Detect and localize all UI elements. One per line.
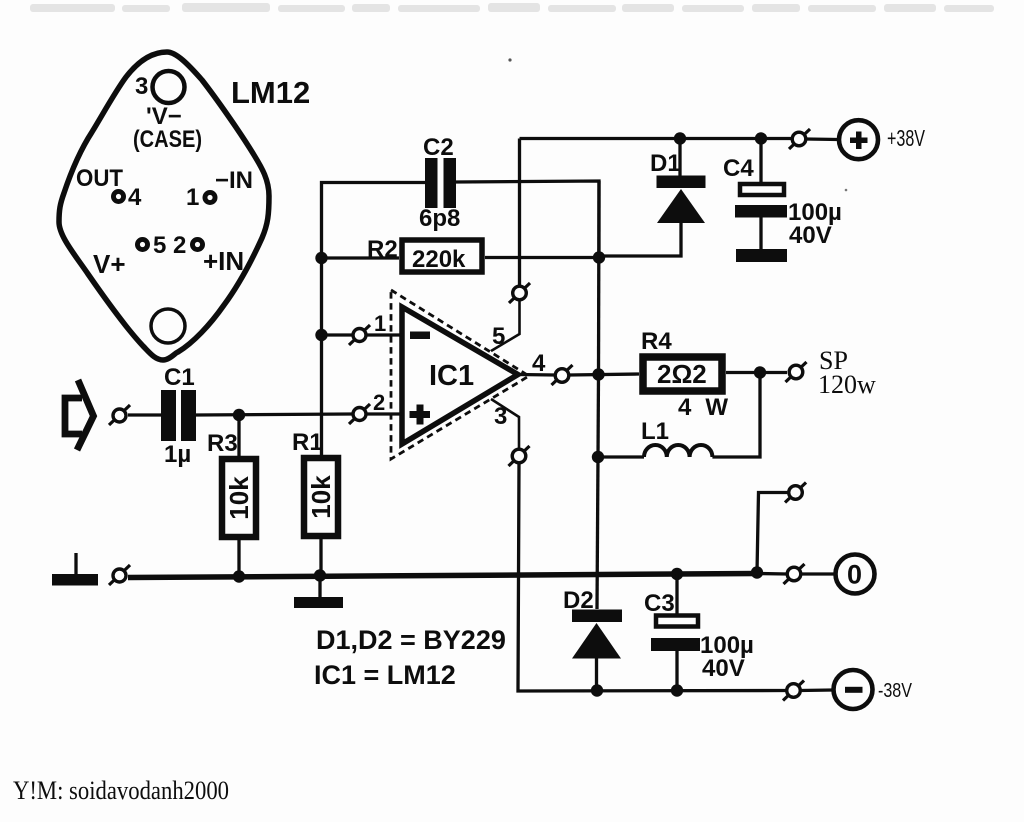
terminal +38V: [839, 120, 878, 159]
svg-text:IC1 = LM12: IC1 = LM12: [314, 660, 456, 690]
node R3 ground junction: [233, 570, 245, 582]
input arrow symbol: [65, 380, 94, 450]
svg-text:R1: R1: [292, 429, 323, 456]
node C4 top junction: [755, 132, 767, 144]
wire R2 left: [321, 256, 399, 259]
node D1 top junction: [674, 132, 686, 144]
svg-text:3: 3: [494, 403, 507, 430]
svg-text:4: 4: [532, 350, 546, 377]
node C1/R3 junction: [233, 409, 245, 421]
svg-text:3: 3: [135, 73, 148, 100]
wire C2 right to output line: [456, 181, 599, 258]
svg-text:D1: D1: [650, 150, 681, 177]
svg-text:LM12: LM12: [231, 75, 310, 110]
wire pin2: [366, 412, 402, 415]
ground terminal connector: [109, 565, 130, 585]
capacitor C2: [425, 158, 438, 208]
svg-text:C1: C1: [164, 364, 195, 391]
node D2 bottom junction: [591, 684, 603, 696]
connector pin4: [552, 365, 573, 385]
minus sign inside IC1: [410, 332, 430, 340]
node output junction: [592, 368, 604, 380]
node C3 top junction: [671, 568, 683, 580]
svg-text:R4: R4: [641, 328, 672, 355]
connector +38V: [789, 129, 810, 149]
svg-text:+IN: +IN: [203, 246, 244, 276]
node feedback/R2 junction: [315, 252, 327, 264]
resistor R1: [304, 458, 338, 536]
input terminal connector: [109, 405, 130, 425]
svg-text:5: 5: [492, 323, 505, 350]
svg-text:1µ: 1µ: [164, 441, 191, 468]
connector pin2: [349, 404, 370, 424]
svg-text:4 W: 4 W: [678, 394, 728, 421]
svg-text:2: 2: [373, 390, 385, 415]
svg-text:L1: L1: [641, 418, 669, 445]
svg-text:V+: V+: [93, 249, 126, 279]
connector pin1: [349, 325, 370, 345]
connector SP: [786, 362, 807, 382]
TO-3 package outline LM12: [59, 52, 269, 360]
svg-text:(CASE): (CASE): [133, 126, 202, 153]
svg-text:10k: 10k: [224, 476, 254, 520]
node C3 bottom junction: [671, 684, 683, 696]
svg-text:220k: 220k: [412, 246, 466, 273]
connector pin3: [509, 446, 530, 466]
svg-text:C3: C3: [644, 590, 675, 617]
connector pin5: [509, 283, 530, 303]
wire to 0 terminal: [801, 572, 835, 575]
svg-text:IC1: IC1: [429, 360, 474, 392]
svg-text:5: 5: [153, 232, 166, 259]
svg-text:+38V: +38V: [887, 125, 925, 151]
svg-text:2Ω2: 2Ω2: [657, 359, 707, 389]
wire R3 to ground line: [237, 537, 240, 576]
wire input to C1: [128, 413, 161, 416]
wire pin1: [321, 333, 352, 336]
wire 0 line (thick ground rail): [128, 574, 757, 578]
TO-3 bottom mounting hole: [151, 309, 185, 343]
wire to -38V terminal: [800, 688, 833, 692]
wire R1 to ground line: [319, 536, 322, 576]
svg-text:C4: C4: [723, 155, 754, 182]
terminal -38V: [834, 670, 873, 709]
node feedback/pin1 junction: [315, 329, 327, 341]
op-amp IC1 dashed outline: [391, 290, 529, 459]
pin dot 5: [135, 237, 150, 252]
wire pin5 to +rail: [491, 287, 520, 352]
ground bar under R1: [318, 575, 321, 597]
wire pin3 to -rail: [491, 399, 519, 449]
svg-text:OUT: OUT: [76, 165, 123, 192]
svg-text:C2: C2: [423, 134, 454, 161]
wire C1 to pin2 connector: [196, 414, 352, 415]
node SP junction: [754, 366, 766, 378]
resistor R2: [402, 240, 482, 272]
wire R4 right to SP junction: [726, 371, 754, 374]
wire feedback vertical line: [322, 183, 426, 459]
node L1 junction: [592, 451, 604, 463]
svg-text:1: 1: [374, 311, 386, 336]
wire +38V top rail: [520, 137, 793, 140]
svg-text:−IN: −IN: [215, 167, 253, 194]
wire 0 line to connector: [757, 572, 787, 576]
capacitor C1: [161, 390, 176, 441]
wire to +38V terminal: [806, 137, 838, 141]
wire output vertical line: [597, 181, 601, 375]
svg-text:6p8: 6p8: [419, 205, 460, 232]
ground symbol left: [74, 553, 77, 575]
svg-text:10k: 10k: [306, 475, 336, 519]
resistor R3: [222, 459, 256, 537]
wire pin4 output: [518, 373, 555, 377]
op-amp IC1 solid triangle: [402, 307, 518, 444]
svg-text:0: 0: [847, 560, 862, 590]
node stub/0 junction: [751, 566, 763, 578]
svg-text:120w: 120w: [818, 370, 876, 399]
svg-text:R3: R3: [207, 430, 238, 457]
connector 0: [784, 564, 805, 584]
wire junction to SP connector: [766, 371, 787, 374]
plus sign inside IC1: [410, 411, 431, 418]
connector -38V: [783, 681, 804, 701]
svg-text:D1,D2 = BY229: D1,D2 = BY229: [316, 625, 506, 655]
terminal 0: [836, 555, 875, 594]
svg-text:1: 1: [186, 184, 199, 211]
pin dot 4: [111, 189, 126, 204]
node R1 ground junction: [314, 569, 326, 581]
wire junction to R3: [237, 415, 240, 456]
connector stub upper right: [785, 483, 806, 503]
svg-text:2: 2: [173, 232, 186, 259]
svg-text:4: 4: [128, 184, 142, 211]
wire R2 right: [485, 256, 599, 259]
TO-3 top mounting hole: [153, 71, 185, 103]
svg-text:Y!M: soidavodanh2000: Y!M: soidavodanh2000: [13, 776, 229, 805]
svg-text:-38V: -38V: [878, 680, 913, 702]
svg-text:40V: 40V: [702, 655, 745, 682]
wire stub connector to 0 line: [757, 493, 789, 573]
node R2/D1 junction: [593, 251, 605, 263]
svg-text:40V: 40V: [789, 222, 832, 249]
